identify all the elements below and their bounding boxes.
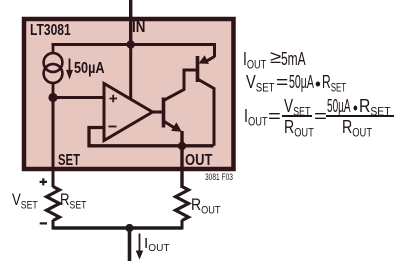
current source I1 circle 2 — [44, 64, 63, 83]
label OUT — [185, 153, 212, 169]
equation3 fraction bar 2 — [326, 115, 394, 117]
label 3081 F03 — [205, 173, 233, 183]
transistor Q1 collector wire to Q2 base — [164, 70, 198, 101]
current source I1 bottom stub — [52, 82, 55, 98]
label LT3081 — [30, 23, 71, 39]
wire: RSET bottom — [52, 220, 55, 230]
label RSET — [60, 191, 86, 212]
label IOUT — [144, 236, 170, 254]
equation3 numerator 50uA — [327, 97, 351, 115]
wire: bottom rail — [53, 226, 182, 229]
transistor Q2 (PNP) base bar — [196, 56, 200, 82]
node: OUT junction — [178, 142, 186, 150]
equation3 = 1st — [268, 107, 281, 125]
wire: IN input from top — [129, 0, 132, 46]
equation3 denominator ROUT — [284, 118, 314, 139]
polarity + sign at VSET — [40, 178, 47, 185]
label IN — [132, 20, 145, 36]
label SET — [58, 153, 80, 169]
node: bottom junction — [125, 224, 133, 232]
wire: IOUT drop — [128, 228, 132, 261]
equation3 fraction bar 1 — [282, 115, 313, 117]
current source I1 circle 1 — [44, 53, 63, 72]
wire: OUT pin down to ROUT — [180, 146, 183, 188]
wire: op-amp output to Q1 base — [152, 111, 164, 114]
wire: SET pin down — [52, 98, 55, 187]
equation2 RSET — [322, 73, 346, 94]
equation3 numerator VSET — [284, 97, 310, 118]
op-amp - sign — [109, 126, 117, 128]
op-amp U1 — [104, 84, 153, 141]
IC body LT3081 — [24, 19, 234, 169]
node: SET junction — [48, 93, 57, 102]
wire: ROUT bottom — [181, 220, 184, 230]
equation3 numerator bullet — [353, 99, 358, 117]
equation3 IOUT — [244, 107, 268, 128]
transistor Q2 (PNP) emitter arrow — [207, 57, 215, 61]
equation2 50uA — [289, 73, 314, 91]
arrow: IOUT current direction — [139, 234, 141, 253]
equation2 bullet — [315, 75, 321, 93]
arrow: 50uA current direction — [69, 59, 71, 72]
polarity - sign at VSET — [40, 222, 47, 224]
equation3 = 2nd — [314, 107, 327, 125]
equation3 denominator ROUT 2nd — [342, 118, 372, 139]
label 50uA — [74, 61, 105, 77]
wire: internal top rail — [52, 43, 215, 46]
transistor Q1 (NPN) base bar — [162, 98, 166, 128]
node: IN junction — [127, 40, 135, 48]
resistor ROUT — [176, 187, 189, 221]
wire: op-amp + input — [53, 96, 104, 99]
current source I1 top stub — [52, 45, 55, 55]
label VSET — [12, 191, 38, 212]
equation2 VSET — [246, 73, 275, 94]
equation1 >= — [270, 48, 281, 66]
equation1 5mA — [281, 50, 306, 68]
equation2 = — [276, 73, 288, 91]
wire: feedback from - input to OUT node — [89, 128, 214, 146]
equation3 numerator RSET — [359, 97, 391, 118]
resistor RSET — [47, 187, 60, 221]
transistor Q1 emitter — [164, 121, 178, 130]
wire: Q1 emitter to OUT node — [180, 131, 183, 146]
equation1 IOUT — [243, 50, 266, 71]
label ROUT — [191, 196, 220, 217]
wire: Q2 emitter from top rail — [213, 43, 216, 57]
op-amp + sign — [110, 95, 118, 102]
transistor Q2 collector to OUT node — [198, 79, 215, 146]
wire: IN down to op-amp top — [129, 45, 132, 101]
